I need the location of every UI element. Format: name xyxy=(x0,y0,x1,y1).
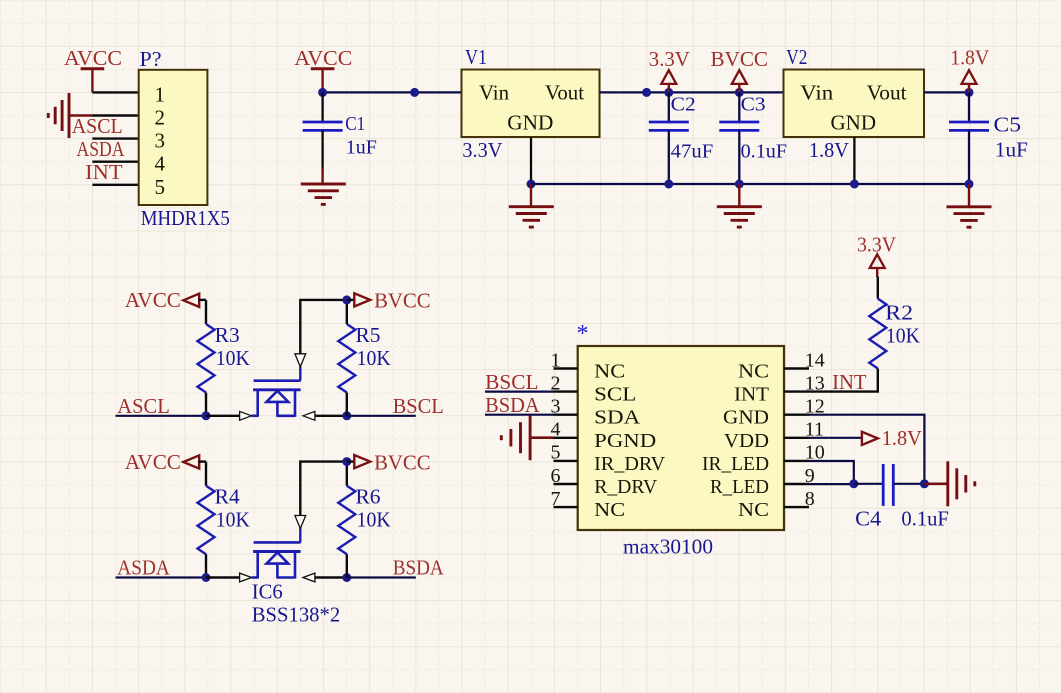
svg-text:NC: NC xyxy=(738,361,769,383)
svg-text:1.8V: 1.8V xyxy=(882,426,922,450)
svg-text:3.3V: 3.3V xyxy=(462,138,502,162)
junction xyxy=(318,88,327,97)
wire xyxy=(92,137,138,139)
power port 3.3V (R2) xyxy=(857,233,896,278)
wire xyxy=(924,91,969,93)
svg-text:R5: R5 xyxy=(356,323,381,347)
gate pin arrow xyxy=(295,354,306,367)
wire xyxy=(968,130,970,184)
resistor R3 xyxy=(198,323,250,393)
designator V2 xyxy=(786,45,807,69)
wire xyxy=(600,91,784,93)
junction xyxy=(342,457,351,466)
svg-text:IR_DRV: IR_DRV xyxy=(594,453,666,475)
net label BSDA (U1) xyxy=(485,393,540,417)
wire xyxy=(315,576,347,578)
junction xyxy=(664,180,673,189)
designator * (max30100) xyxy=(577,321,589,347)
power port BVCC (BSCL) xyxy=(347,289,431,313)
resistor R5 xyxy=(338,323,390,393)
junction xyxy=(202,573,211,582)
svg-text:C2: C2 xyxy=(671,94,696,116)
svg-text:INT: INT xyxy=(85,160,123,184)
svg-text:ASDA: ASDA xyxy=(117,556,170,580)
wire xyxy=(205,393,207,416)
svg-text:SDA: SDA xyxy=(594,407,641,429)
net label ASDA xyxy=(77,137,126,161)
svg-text:ASCL: ASCL xyxy=(117,394,170,418)
power port BVCC (BSDA) xyxy=(347,450,431,474)
value BSS138*2 xyxy=(252,603,341,627)
svg-text:C5: C5 xyxy=(994,113,1022,137)
svg-text:SCL: SCL xyxy=(594,384,636,406)
wire xyxy=(321,92,323,122)
wire xyxy=(809,415,924,484)
svg-text:7: 7 xyxy=(551,488,561,510)
svg-text:4: 4 xyxy=(155,152,166,176)
svg-text:10K: 10K xyxy=(357,508,391,532)
svg-text:AVCC: AVCC xyxy=(294,46,352,70)
svg-text:10K: 10K xyxy=(886,324,920,348)
ground (PGND) xyxy=(501,415,553,460)
junction xyxy=(664,88,673,97)
svg-text:0.1uF: 0.1uF xyxy=(901,507,949,531)
svg-text:NC: NC xyxy=(594,499,625,521)
wire xyxy=(206,576,240,578)
capacitor C4 xyxy=(855,464,949,531)
junction xyxy=(342,411,351,420)
wire xyxy=(300,300,347,354)
pin arrow xyxy=(303,573,315,582)
wire xyxy=(738,92,740,122)
regulator V2 xyxy=(784,70,925,138)
svg-text:3.3V: 3.3V xyxy=(857,233,896,257)
value 1.8V (V2) xyxy=(809,138,849,162)
svg-text:max30100: max30100 xyxy=(623,535,713,559)
wire xyxy=(854,483,883,485)
junction xyxy=(642,88,651,97)
svg-text:R_DRV: R_DRV xyxy=(594,476,658,498)
wire xyxy=(323,91,462,93)
power port 3.3V (rail) xyxy=(649,47,690,92)
svg-text:Vin: Vin xyxy=(800,81,834,105)
net label INT (header) xyxy=(85,160,123,184)
ground (C1) xyxy=(301,168,346,204)
wire xyxy=(346,554,348,577)
wire xyxy=(668,130,670,184)
svg-text:10K: 10K xyxy=(357,346,391,370)
svg-text:GND: GND xyxy=(831,111,877,135)
junction xyxy=(202,411,211,420)
svg-text:V2: V2 xyxy=(786,45,807,69)
svg-text:V1: V1 xyxy=(465,45,487,69)
power port 1.8V (VDD) xyxy=(862,426,922,450)
wire xyxy=(92,91,138,93)
transistor (half of IC6) xyxy=(252,367,301,417)
designator P? xyxy=(140,47,162,71)
connector P1 MHDR1X5 xyxy=(139,70,208,205)
svg-text:PGND: PGND xyxy=(594,430,656,452)
net label BSDA xyxy=(393,556,445,580)
net label INT (U1) xyxy=(832,370,867,394)
net label ASCL xyxy=(72,114,123,138)
wire xyxy=(116,415,207,417)
svg-text:AVCC: AVCC xyxy=(64,46,122,70)
junction xyxy=(965,88,974,97)
junction xyxy=(965,180,974,189)
junction xyxy=(342,573,351,582)
svg-text:1: 1 xyxy=(551,349,561,371)
junction xyxy=(735,180,744,189)
svg-text:MHDR1X5: MHDR1X5 xyxy=(141,206,230,230)
svg-text:Vout: Vout xyxy=(545,81,584,105)
regulator V1 xyxy=(462,70,600,138)
pin arrow xyxy=(240,411,252,420)
svg-text:14: 14 xyxy=(805,349,825,371)
wire xyxy=(809,483,854,485)
wire xyxy=(530,137,532,184)
wire xyxy=(853,137,855,184)
power port AVCC (BSDA) xyxy=(125,450,206,474)
svg-text:47uF: 47uF xyxy=(671,141,714,163)
capacitor C2 xyxy=(649,94,713,163)
net label BSCL xyxy=(393,394,444,418)
svg-text:AVCC: AVCC xyxy=(125,450,181,474)
designator IC6 xyxy=(252,580,283,604)
wire xyxy=(346,300,348,324)
value 3.3V (V1) xyxy=(462,138,502,162)
wire xyxy=(205,554,207,577)
capacitor C5 xyxy=(949,113,1028,162)
svg-text:BVCC: BVCC xyxy=(374,289,431,313)
svg-text:2: 2 xyxy=(155,106,166,130)
svg-text:BVCC: BVCC xyxy=(374,450,431,474)
wire xyxy=(92,160,138,162)
svg-text:ASDA: ASDA xyxy=(77,137,126,161)
power port 1.8V (rail) xyxy=(950,46,989,93)
wire xyxy=(485,391,554,393)
svg-text:1uF: 1uF xyxy=(995,138,1028,162)
wire (bottom rail) xyxy=(531,183,969,185)
svg-text:VDD: VDD xyxy=(724,430,769,452)
svg-text:1.8V: 1.8V xyxy=(950,46,989,70)
svg-text:NC: NC xyxy=(594,361,625,383)
resistor R6 xyxy=(338,485,390,555)
svg-text:BSS138*2: BSS138*2 xyxy=(252,603,341,627)
svg-text:0.1uF: 0.1uF xyxy=(741,141,788,163)
svg-text:ASCL: ASCL xyxy=(72,114,123,138)
junction xyxy=(342,295,351,304)
wire xyxy=(92,114,138,116)
svg-text:R3: R3 xyxy=(215,323,240,347)
transistor (half of IC6) xyxy=(252,528,301,578)
svg-text:AVCC: AVCC xyxy=(125,288,181,312)
wire xyxy=(809,461,854,483)
svg-text:BSCL: BSCL xyxy=(485,370,538,394)
power port BVCC (rail) xyxy=(711,47,769,92)
junction xyxy=(410,88,419,97)
resistor R4 xyxy=(198,485,250,555)
svg-text:C1: C1 xyxy=(345,113,365,135)
svg-text:BSDA: BSDA xyxy=(485,393,540,417)
svg-text:1uF: 1uF xyxy=(346,137,377,159)
ground (C3) xyxy=(717,184,762,227)
svg-text:INT: INT xyxy=(734,384,769,406)
svg-text:IR_LED: IR_LED xyxy=(702,453,769,475)
IC U1 max30100 xyxy=(551,346,825,530)
svg-text:6: 6 xyxy=(551,465,561,487)
wire xyxy=(738,130,740,184)
svg-text:3.3V: 3.3V xyxy=(649,47,690,71)
wire xyxy=(877,277,879,299)
svg-text:GND: GND xyxy=(507,111,553,135)
net label ASDA xyxy=(117,556,170,580)
power port AVCC (BSCL) xyxy=(125,288,206,312)
svg-text:1: 1 xyxy=(155,82,166,106)
wire xyxy=(347,415,416,417)
pin arrow xyxy=(240,573,252,582)
svg-text:5: 5 xyxy=(551,442,561,464)
wire xyxy=(206,415,240,417)
wire xyxy=(315,415,347,417)
svg-text:1.8V: 1.8V xyxy=(809,138,849,162)
value max30100 xyxy=(623,535,713,559)
net label ASCL xyxy=(117,394,170,418)
designator V1 xyxy=(465,45,487,69)
svg-text:C3: C3 xyxy=(741,94,766,116)
ground (C4) xyxy=(924,461,974,506)
wire xyxy=(321,130,323,170)
wire xyxy=(968,92,970,122)
wire xyxy=(485,414,554,416)
pin arrow xyxy=(303,411,315,420)
svg-text:R6: R6 xyxy=(356,485,381,509)
svg-text:BSCL: BSCL xyxy=(393,394,444,418)
gate pin arrow xyxy=(295,516,306,529)
junction xyxy=(920,479,929,488)
wire xyxy=(809,437,862,439)
resistor R2 xyxy=(869,299,920,369)
svg-text:Vin: Vin xyxy=(479,81,509,105)
svg-text:INT: INT xyxy=(832,370,867,394)
wire xyxy=(809,369,878,392)
ground (header pin 2) xyxy=(48,93,92,138)
power port AVCC (rail) xyxy=(294,46,352,91)
wire xyxy=(346,393,348,416)
svg-text:GND: GND xyxy=(723,407,769,429)
svg-text:BSDA: BSDA xyxy=(393,556,445,580)
value MHDR1X5 xyxy=(141,206,230,230)
wire xyxy=(668,92,670,122)
junction xyxy=(735,88,744,97)
wire xyxy=(300,462,347,516)
svg-text:5: 5 xyxy=(155,175,166,199)
capacitor C1 xyxy=(303,113,377,159)
svg-text:BVCC: BVCC xyxy=(711,47,769,71)
svg-text:*: * xyxy=(577,321,589,347)
junction xyxy=(527,180,536,189)
svg-text:R2: R2 xyxy=(885,301,913,325)
wire xyxy=(205,300,207,324)
svg-text:P?: P? xyxy=(140,47,162,71)
wire xyxy=(347,576,416,578)
ground (C5) xyxy=(947,184,992,227)
wire xyxy=(205,462,207,486)
junction xyxy=(849,479,858,488)
net label BSCL (U1) xyxy=(485,370,538,394)
wire xyxy=(893,483,924,485)
power port AVCC (header) xyxy=(64,46,122,92)
svg-text:IC6: IC6 xyxy=(252,580,283,604)
wire xyxy=(116,576,207,578)
wire xyxy=(346,462,348,486)
svg-text:C4: C4 xyxy=(855,507,882,531)
junction xyxy=(850,180,859,189)
svg-text:10K: 10K xyxy=(216,346,250,370)
wire xyxy=(92,184,138,186)
svg-text:R_LED: R_LED xyxy=(710,476,769,498)
svg-text:Vout: Vout xyxy=(867,81,907,105)
svg-text:NC: NC xyxy=(738,499,769,521)
svg-text:R4: R4 xyxy=(215,485,241,509)
svg-text:10K: 10K xyxy=(216,508,250,532)
svg-text:3: 3 xyxy=(155,129,166,153)
capacitor C3 xyxy=(719,94,787,163)
svg-text:8: 8 xyxy=(805,488,815,510)
ground (V1 GND) xyxy=(509,184,554,227)
